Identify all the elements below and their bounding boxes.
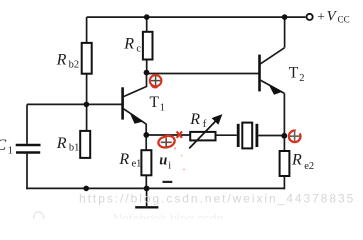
resistor Rc xyxy=(143,32,153,60)
ground xyxy=(135,188,158,207)
red plus annotation at T1 collector xyxy=(150,75,162,87)
red x annotation on Rf wire xyxy=(177,131,182,137)
node dot Rb1 bottom rail xyxy=(83,186,89,192)
svg-text:R: R xyxy=(56,135,67,152)
red plus annotation at output node xyxy=(289,131,301,143)
svg-text:Notebook blog.csdn: Notebook blog.csdn xyxy=(113,212,224,219)
svg-text:i: i xyxy=(168,160,171,171)
svg-text:T: T xyxy=(289,65,299,82)
transistor T2 xyxy=(260,48,285,94)
terminal +Vcc xyxy=(307,14,313,20)
svg-text:e2: e2 xyxy=(304,161,314,172)
svg-text:V: V xyxy=(327,9,338,25)
node dot T1 emitter xyxy=(143,132,149,138)
wire bottom ground rail xyxy=(26,187,284,189)
svg-text:e1: e1 xyxy=(132,158,142,169)
svg-text:1: 1 xyxy=(8,145,13,156)
node dot T1 collector xyxy=(144,70,150,76)
transistor T1 xyxy=(123,74,147,124)
resistor Rb2 xyxy=(82,43,92,74)
wire emitter bus to Rf xyxy=(146,134,190,136)
svg-text:u: u xyxy=(159,152,167,168)
wire T1 emitter node to Re1 xyxy=(145,124,147,151)
svg-text:b1: b1 xyxy=(69,143,80,154)
resistor Rf variable xyxy=(189,115,221,148)
svg-text:R: R xyxy=(189,111,200,128)
wire left drop from rail to Rb2 xyxy=(86,17,88,43)
node dot Re1 bottom rail xyxy=(144,186,150,192)
wire T2 base bus xyxy=(147,73,259,75)
wire Rc bottom to collector node xyxy=(146,60,148,74)
wire T2 emitter vertical to node xyxy=(283,93,285,151)
red speck artifacts xyxy=(174,147,176,149)
wire crystal to output node xyxy=(258,135,284,137)
capacitor C1 xyxy=(16,145,41,153)
node dot T2 collector rail junction xyxy=(282,14,288,20)
wire Rc top stub xyxy=(146,17,148,32)
node dot crystal output xyxy=(281,133,287,139)
svg-text:b2: b2 xyxy=(69,60,80,71)
wire Re1 bottom stub xyxy=(145,175,147,188)
svg-text:2: 2 xyxy=(299,73,304,84)
svg-text:C: C xyxy=(0,137,7,154)
svg-text:T: T xyxy=(150,94,160,111)
wire base bus C1 to T1 base xyxy=(27,103,122,105)
resistor Rb1 xyxy=(80,131,90,158)
svg-text:+: + xyxy=(317,9,325,24)
wire top supply rail xyxy=(87,16,306,18)
svg-text:f: f xyxy=(203,119,207,130)
svg-text:R: R xyxy=(291,152,302,169)
svg-text:1: 1 xyxy=(160,102,165,113)
wire C1 bottom drop xyxy=(26,154,28,190)
wire Re2 bottom stub xyxy=(283,176,285,189)
svg-text:R: R xyxy=(123,36,134,53)
node dot base bus / Rb divider xyxy=(84,102,90,108)
wire Rf to crystal xyxy=(216,134,237,136)
svg-text:c: c xyxy=(136,44,141,55)
label minus input xyxy=(163,181,173,183)
wire Rb2 bottom to base bus xyxy=(86,74,88,131)
svg-text:R: R xyxy=(118,151,129,168)
resistor Re1 xyxy=(141,150,151,175)
svg-text:R: R xyxy=(56,52,67,69)
wire C1 top drop xyxy=(26,104,28,143)
svg-text:https://blog.csdn.net/weixin_4: https://blog.csdn.net/weixin_44378835 xyxy=(79,192,355,206)
faint cropped caption row xyxy=(34,212,224,226)
crystal resonator xyxy=(238,123,257,149)
resistor Re2 xyxy=(280,151,290,176)
wire T2 collector vertical xyxy=(284,17,286,47)
node dot Rc top rail junction xyxy=(144,14,150,20)
svg-text:CC: CC xyxy=(338,15,350,25)
red plus annotation at ui input xyxy=(158,136,174,148)
